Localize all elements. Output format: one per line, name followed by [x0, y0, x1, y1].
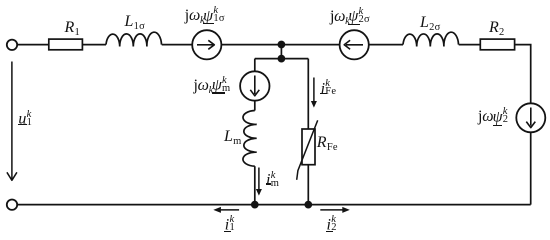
node dot bottom Fe: [304, 201, 312, 209]
current arrow i2: [320, 207, 350, 213]
label jwk psimk: [194, 75, 231, 94]
underline im: [266, 183, 272, 184]
wire corner right: [515, 45, 531, 104]
underline psi2s: [348, 24, 360, 25]
current arrow im: [256, 168, 262, 196]
terminal bottom-left: [7, 200, 17, 210]
label i2: [327, 215, 337, 234]
node dot bottom m: [251, 201, 259, 209]
wire: [82, 44, 106, 46]
inductor Lm: [243, 111, 257, 167]
wire split horizontal: [255, 58, 308, 60]
label R2: [489, 20, 505, 36]
underline psi1s: [203, 23, 214, 24]
label RFe: [317, 135, 338, 151]
label jwk psi2sk: [330, 6, 370, 25]
wire link: [280, 45, 282, 59]
underline i1: [224, 231, 231, 232]
node dot lower: [278, 55, 286, 63]
source U1: jwk psi1s: [192, 30, 221, 59]
source U3: jwk psi2s: [340, 30, 369, 59]
wire: [17, 44, 48, 46]
underline psim: [212, 92, 225, 93]
wire RFe branch upper: [307, 59, 309, 129]
wire: [369, 44, 403, 46]
label Lm: [224, 129, 242, 145]
label jwk psi1sk: [185, 6, 225, 25]
node dot top: [278, 41, 286, 49]
underline u1: [18, 124, 27, 125]
wire: [254, 166, 256, 204]
wire RFe branch lower: [307, 165, 309, 205]
source U4: jw psi2: [516, 103, 545, 132]
voltage arrow u1: [7, 62, 17, 181]
underline iFe: [320, 93, 327, 94]
label L2sigma: [420, 15, 441, 31]
underline i2: [326, 231, 333, 232]
current arrow iFe: [311, 78, 317, 108]
inductor L2sigma: [403, 32, 459, 46]
resistor R2: [480, 39, 514, 50]
label R1: [65, 20, 81, 36]
resistor R1: [49, 39, 83, 50]
wire bottom: [18, 204, 531, 206]
wire right lower: [530, 132, 532, 204]
label u1: [18, 109, 32, 128]
wire: [222, 44, 340, 46]
wire: [459, 44, 481, 46]
wire: [254, 59, 256, 72]
underline psi2: [493, 125, 502, 126]
label i1: [225, 215, 235, 234]
current arrow i1: [213, 207, 239, 213]
label iFe: [321, 79, 337, 98]
inductor L1sigma: [106, 32, 162, 46]
varistor diagonal: [297, 120, 318, 180]
label jw psi2k: [478, 107, 508, 126]
label L1sigma: [125, 14, 146, 30]
wire: [162, 44, 192, 46]
label im: [266, 170, 279, 189]
source U2: jwk psim: [240, 71, 269, 100]
wire: [254, 101, 256, 111]
resistor RFe: [302, 129, 315, 165]
terminal top-left: [7, 40, 17, 50]
